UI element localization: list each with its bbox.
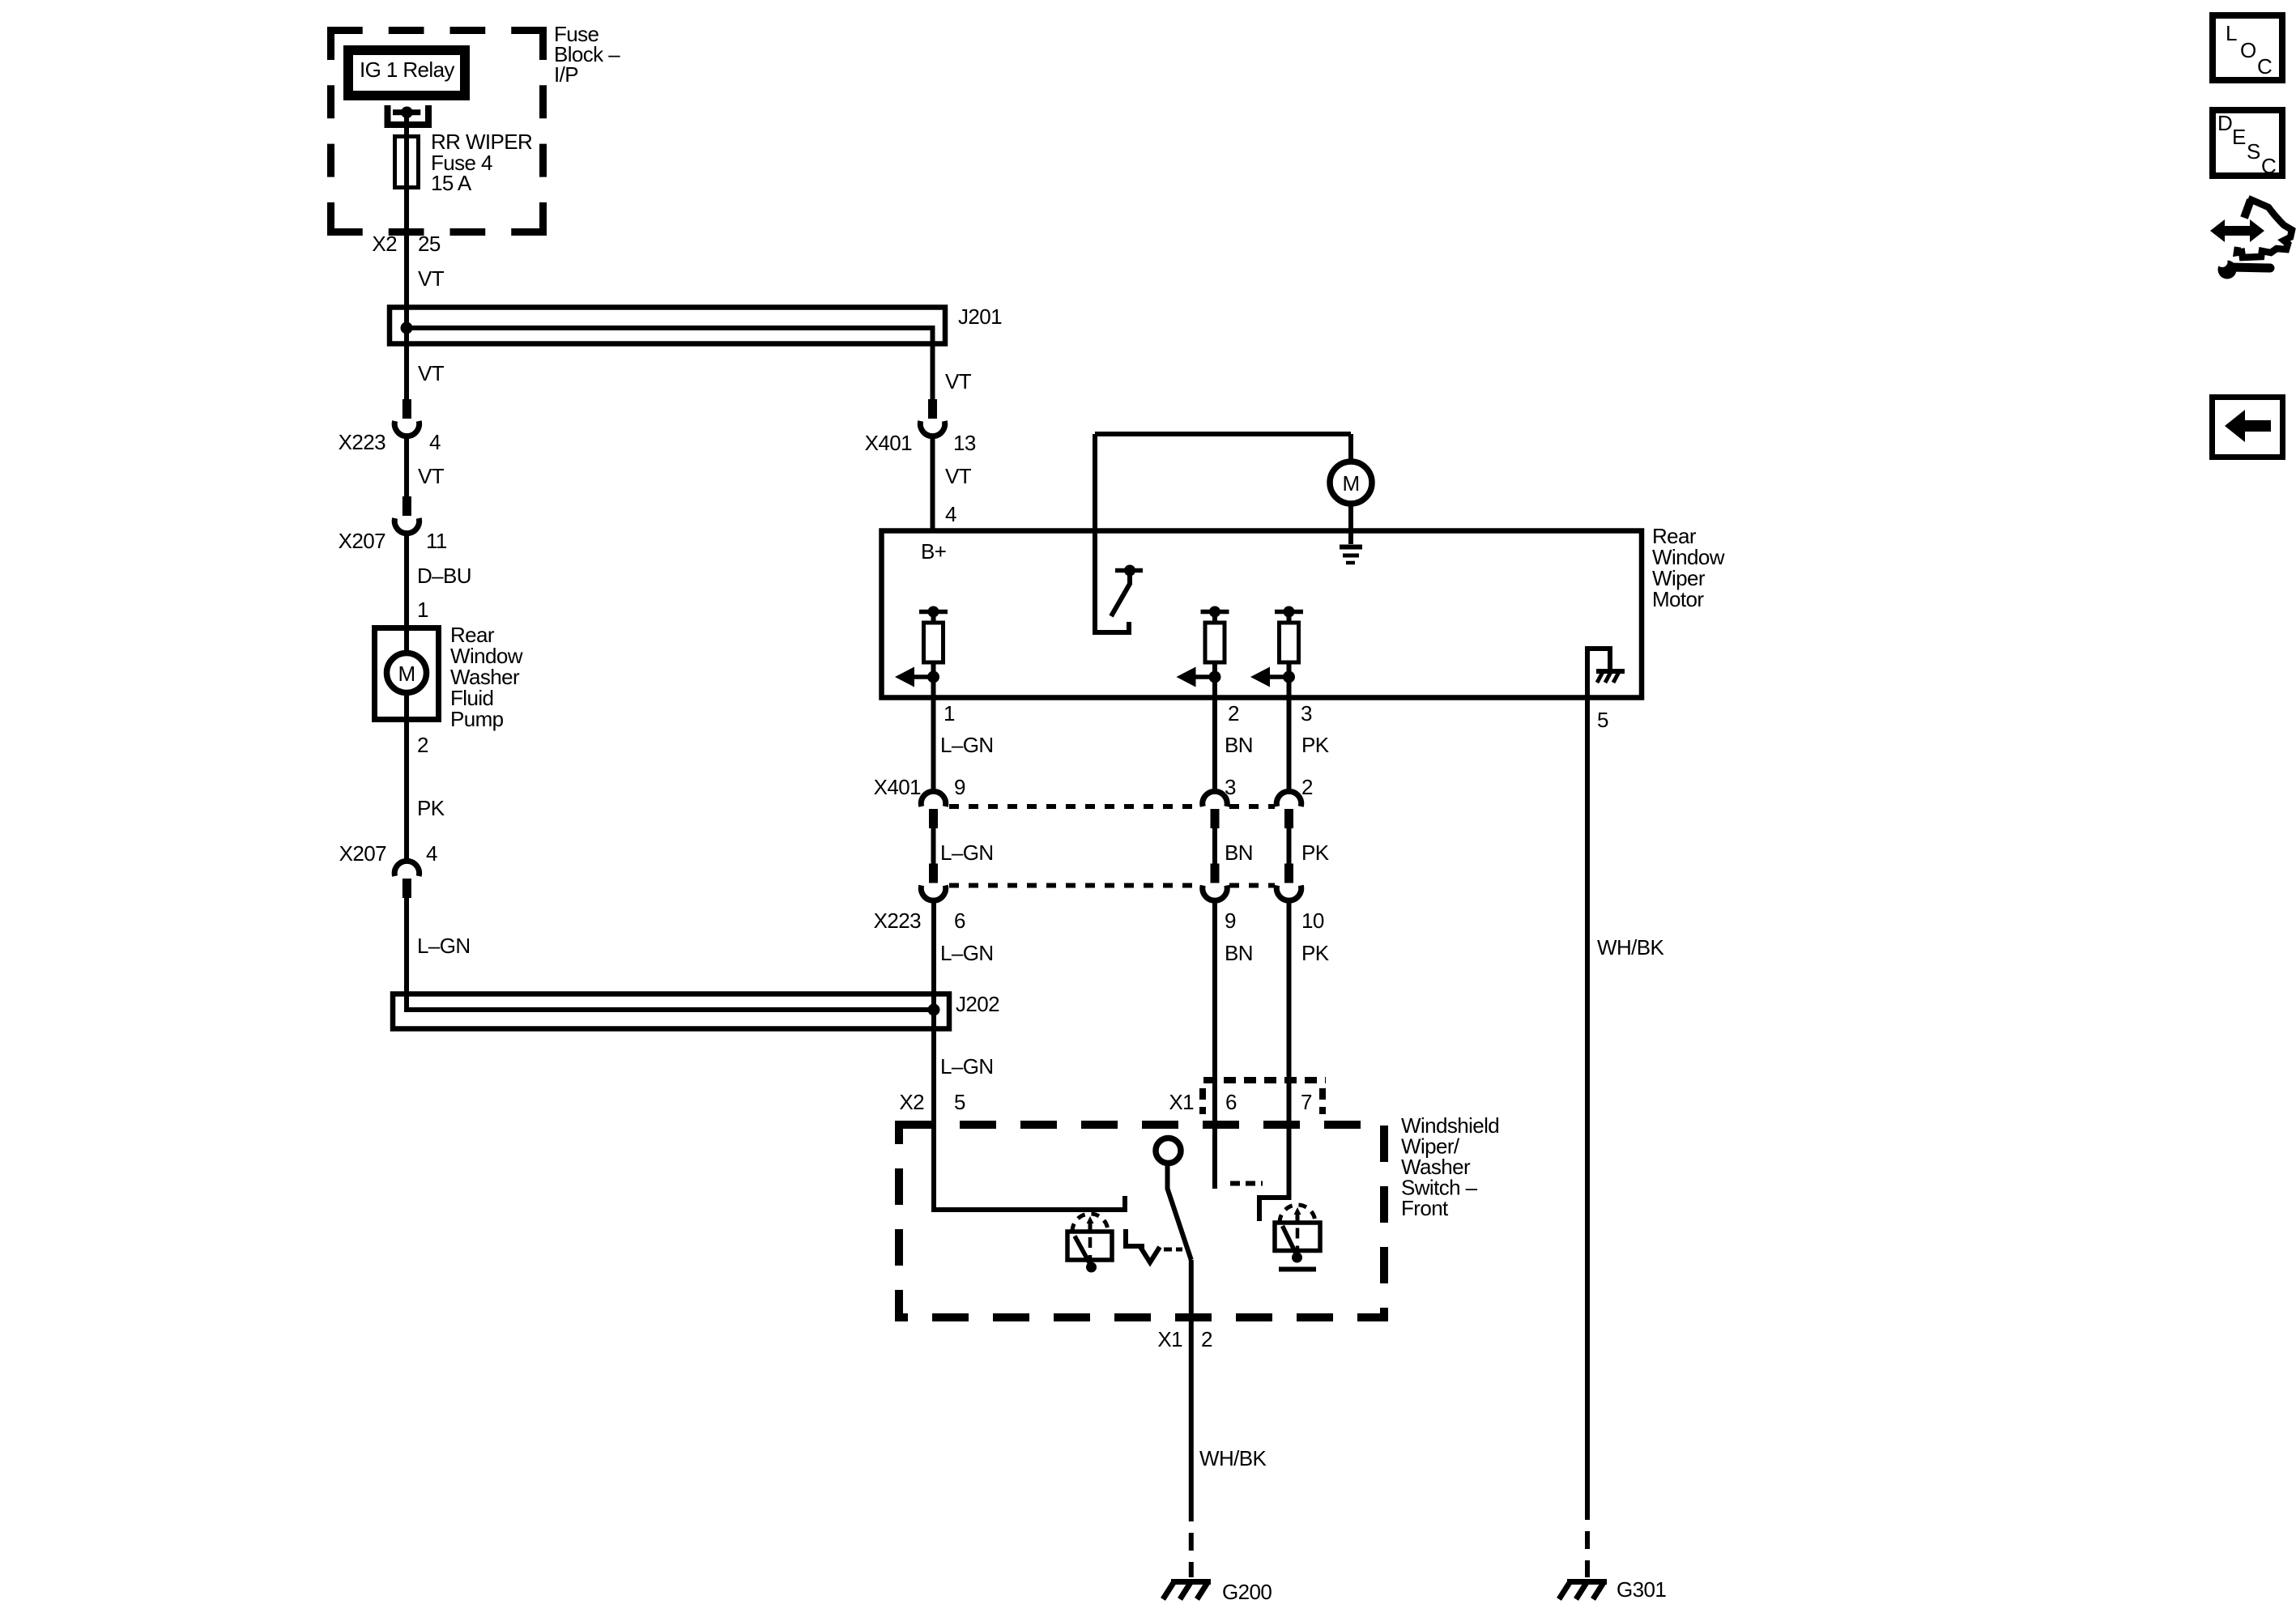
- wire VT from relay through fuse to X223: [404, 113, 409, 399]
- resistor R1 (pin 1 path): [919, 606, 948, 678]
- svg-text:X207: X207: [339, 841, 386, 866]
- junction dot at relay output: [401, 107, 413, 119]
- junction dot J202: [928, 1004, 940, 1016]
- connector X223 pin 4 (inline, left column): [339, 399, 441, 454]
- connector X223 pin 10: [1276, 864, 1324, 934]
- svg-text:5: 5: [954, 1090, 965, 1114]
- pin 5 internal hook to chassis ground: [1587, 649, 1610, 698]
- label: Fuse Block - I/P: [554, 22, 620, 87]
- wiper arrow at R1: [895, 667, 939, 687]
- svg-text:2: 2: [1201, 1327, 1212, 1351]
- pin labels 1 2 3 5: [944, 701, 1608, 732]
- svg-text:X2: X2: [899, 1090, 924, 1114]
- svg-text:2: 2: [1228, 701, 1239, 726]
- connector X401 pin 13 (inline, right column): [865, 399, 976, 455]
- svg-text:3: 3: [1225, 775, 1236, 799]
- resistor R3 (pin 3 path): [1275, 606, 1303, 678]
- wiper arrow at R2: [1177, 667, 1221, 687]
- svg-text:L–GN: L–GN: [940, 840, 994, 865]
- svg-text:L–GN: L–GN: [417, 934, 471, 958]
- wiper icon (washer right): [1275, 1205, 1320, 1270]
- splice pack J201: [390, 304, 1002, 344]
- relay IG 1 Relay: [348, 50, 465, 96]
- motor symbol M (rear wiper motor): [1330, 462, 1372, 504]
- fuse block dashed box (Fuse Block - I/P): [327, 27, 547, 236]
- svg-text:11: 11: [426, 529, 447, 553]
- svg-text:X2: X2: [372, 232, 397, 256]
- svg-text:10: 10: [1301, 908, 1324, 933]
- service icon: double arrow: [2210, 219, 2264, 242]
- svg-text:B+: B+: [921, 539, 946, 564]
- svg-text:5: 5: [1597, 708, 1608, 732]
- wiper arrow at R3: [1250, 667, 1295, 687]
- svg-text:VT: VT: [418, 361, 445, 385]
- svg-text:4: 4: [429, 430, 441, 454]
- svg-text:L–GN: L–GN: [940, 1054, 994, 1079]
- wire D-BU to pump pin 1: [407, 534, 471, 653]
- relay output terminal bracket: [388, 105, 429, 125]
- service icon: wrench: [2217, 257, 2271, 279]
- svg-text:C: C: [2257, 54, 2272, 79]
- svg-text:O: O: [2240, 38, 2256, 62]
- svg-text:D: D: [2217, 111, 2232, 135]
- pump box: Rear Window Washer Fluid Pump: [375, 628, 439, 720]
- svg-text:3: 3: [1301, 701, 1312, 726]
- splice pack J202: [393, 992, 999, 1029]
- svg-text:2: 2: [417, 733, 428, 757]
- svg-text:M: M: [398, 662, 415, 686]
- svg-text:G301: G301: [1617, 1577, 1666, 1602]
- motor box: Rear Window Wiper Motor: [882, 531, 1642, 698]
- wire PK from X223-10 to washer contact: [1259, 900, 1330, 1221]
- svg-text:L–GN: L–GN: [940, 733, 994, 757]
- wire VT between X223 and X207: [407, 436, 445, 497]
- svg-text:6: 6: [1225, 1090, 1237, 1114]
- svg-text:Motor: Motor: [1652, 587, 1704, 611]
- svg-text:PK: PK: [417, 796, 445, 820]
- internal wire loop from park switch to motor M: [1095, 434, 1351, 632]
- svg-text:E: E: [2232, 125, 2246, 149]
- svg-text:J201: J201: [958, 304, 1002, 329]
- svg-text:VT: VT: [418, 464, 445, 488]
- wire VT from X401-13 to motor pin 4: [933, 436, 972, 531]
- park switch pivot (T-bar and dot): [1115, 565, 1143, 577]
- svg-text:X1: X1: [1169, 1090, 1194, 1114]
- svg-text:X401: X401: [874, 775, 921, 799]
- svg-text:L–GN: L–GN: [940, 941, 994, 965]
- ground G301: [1559, 1577, 1666, 1602]
- pin row labels X2 5 / X1 6 7: [899, 1090, 1312, 1114]
- svg-text:PK: PK: [1301, 941, 1330, 965]
- svg-text:S: S: [2247, 139, 2260, 164]
- wire inside J201 to X401-13: [407, 328, 933, 399]
- svg-text:1: 1: [944, 701, 955, 726]
- svg-text:L: L: [2226, 21, 2237, 45]
- connector X401 pin 3: [1203, 775, 1236, 828]
- svg-text:PK: PK: [1301, 840, 1330, 865]
- wire L-GN between X401-9 and X223-6: [934, 828, 994, 865]
- wire BN pin2 to X401-3: [1215, 677, 1253, 792]
- svg-text:G200: G200: [1222, 1580, 1272, 1604]
- switch dashed box: Windshield Wiper/Washer Switch - Front: [899, 1125, 1384, 1317]
- svg-text:1: 1: [417, 598, 428, 622]
- svg-text:9: 9: [954, 775, 965, 799]
- earth ground inside motor box: [1340, 547, 1362, 564]
- svg-text:M: M: [1342, 471, 1359, 496]
- connector X401 pin 9: [874, 775, 965, 828]
- svg-text:WH/BK: WH/BK: [1199, 1446, 1267, 1470]
- ground G200: [1163, 1580, 1272, 1604]
- wire WH/BK from motor pin 5 to G301: [1587, 698, 1664, 1502]
- dashed wire tail to G301: [1585, 1502, 1590, 1577]
- motor symbol M (washer pump): [387, 653, 427, 693]
- svg-text:Pump: Pump: [450, 707, 504, 731]
- wire PK from pump pin 2 to X207-4: [407, 693, 445, 862]
- wire L-GN from X207-4 into J202: [407, 898, 934, 1010]
- svg-text:BN: BN: [1225, 840, 1253, 865]
- dashed wire tail to G200: [1189, 1504, 1194, 1577]
- wire label VT (left below J201): [418, 361, 445, 385]
- connector X223 pin 9: [1203, 864, 1236, 934]
- junction dot J201: [401, 322, 413, 334]
- svg-text:Front: Front: [1401, 1196, 1449, 1220]
- resistor R2 (pin 2 path): [1201, 606, 1229, 678]
- wire WH/BK switch output to G200: [1191, 1260, 1267, 1504]
- svg-text:VT: VT: [945, 464, 972, 488]
- wire label VT: [418, 266, 445, 291]
- label: Rear Window Wiper Motor: [1652, 524, 1725, 611]
- connector X207 pin 4 (inverted cup): [339, 841, 437, 898]
- svg-text:X207: X207: [339, 529, 386, 553]
- label: RR WIPER Fuse 4 15 A: [431, 130, 532, 195]
- label: Windshield Wiper/Washer Switch - Front: [1401, 1113, 1499, 1220]
- svg-text:9: 9: [1225, 908, 1236, 933]
- dashed connector line X223 row: [949, 883, 1275, 888]
- svg-text:X1: X1: [1157, 1327, 1182, 1351]
- svg-text:PK: PK: [1301, 733, 1330, 757]
- svg-text:I/P: I/P: [554, 62, 578, 87]
- svg-text:4: 4: [426, 841, 437, 866]
- pin label X1 | 2: [1157, 1327, 1212, 1351]
- pin label X2 | 25 (fuse block output): [372, 232, 440, 256]
- wire label VT (right below J201): [945, 369, 972, 394]
- pin label B+: [921, 539, 946, 564]
- wire L-GN pin1 to X401-9: [934, 677, 994, 792]
- LOC icon box: [2213, 15, 2282, 80]
- svg-text:2: 2: [1301, 775, 1313, 799]
- svg-text:6: 6: [954, 908, 965, 933]
- svg-text:D–BU: D–BU: [417, 564, 471, 588]
- connector X401 pin 2: [1276, 775, 1313, 828]
- dashed connector line X401 row: [949, 804, 1275, 809]
- svg-text:13: 13: [953, 431, 976, 455]
- chassis ground symbol (pin 5): [1596, 670, 1625, 683]
- park switch blade: [1111, 571, 1130, 617]
- wire L-GN from X223-6 through J202 to switch: [934, 900, 1125, 1210]
- svg-text:X223: X223: [339, 430, 386, 454]
- svg-text:7: 7: [1301, 1090, 1312, 1114]
- momentary contact mark: [1123, 1229, 1182, 1262]
- washer switch pivot circle: [1156, 1138, 1181, 1164]
- label: Rear Window Washer Fluid Pump: [450, 623, 523, 731]
- svg-text:25: 25: [418, 232, 441, 256]
- wire PK between X401-2 and X223-10: [1289, 828, 1330, 865]
- svg-text:WH/BK: WH/BK: [1597, 935, 1664, 960]
- back arrow icon box: [2213, 398, 2283, 457]
- dashed link to BN contact: [1230, 1181, 1263, 1186]
- wire PK pin3 to X401-2: [1289, 677, 1330, 792]
- washer switch blade: [1168, 1164, 1191, 1260]
- svg-text:4: 4: [945, 502, 956, 526]
- svg-text:BN: BN: [1225, 941, 1253, 965]
- wiper icon (rear wash left): [1067, 1214, 1112, 1273]
- connector X223 pin 6: [874, 864, 965, 934]
- fuse F4: RR WIPER Fuse 4 15 A: [395, 137, 419, 188]
- svg-text:IG 1 Relay: IG 1 Relay: [360, 57, 454, 82]
- wire BN from X223-9 to switch contact: [1215, 900, 1253, 1189]
- connector X1 dashed frame (pins 6,7): [1203, 1080, 1326, 1114]
- svg-text:BN: BN: [1225, 733, 1253, 757]
- svg-text:J202: J202: [956, 992, 999, 1016]
- svg-text:VT: VT: [945, 369, 972, 394]
- svg-text:15 A: 15 A: [431, 171, 472, 195]
- DESC icon box: [2213, 110, 2282, 178]
- wire BN between X401-3 and X223-9: [1215, 828, 1253, 865]
- svg-text:C: C: [2261, 154, 2276, 178]
- service icon: panel outline: [2237, 198, 2292, 257]
- svg-text:VT: VT: [418, 266, 445, 291]
- svg-text:X401: X401: [865, 431, 912, 455]
- svg-text:X223: X223: [874, 908, 921, 933]
- connector X207 pin 11: [339, 496, 447, 553]
